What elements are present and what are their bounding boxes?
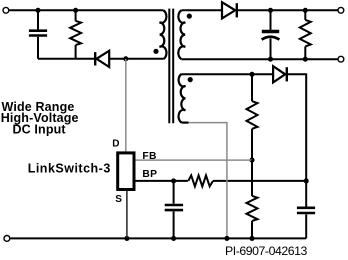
- capacitor C1 (input clamp cap): [29, 10, 47, 58]
- transformer T1 secondary phase dot: [187, 14, 192, 19]
- node C3 to return rail: [171, 236, 176, 241]
- resistor R5 (BP series, horizontal): [188, 175, 213, 186]
- node R4 to return rail: [249, 236, 254, 241]
- wire drain link (thin) to U1 D pin: [125, 59, 127, 151]
- node BP: [304, 178, 309, 183]
- wire BP line left segment from U1 BP pin: [136, 180, 188, 182]
- input terminal - (open circle): [4, 236, 10, 242]
- svg-text:PI-6907-042613: PI-6907-042613: [225, 244, 308, 258]
- resistor R3 (feedback upper): [247, 74, 258, 160]
- svg-text:DC Input: DC Input: [12, 123, 66, 137]
- input terminal + (open circle): [3, 7, 9, 13]
- wire from D1 anode to primary bottom: [109, 58, 163, 60]
- svg-text:D: D: [112, 139, 119, 150]
- wire D2 cathode to output+ terminal: [238, 9, 338, 11]
- node drain junction: [123, 56, 128, 61]
- transformer T1 bias winding: [179, 74, 186, 123]
- wire secondary top to D2 anode: [181, 9, 222, 11]
- resistor R2 (preload): [300, 10, 311, 59]
- resistor R4 (feedback lower): [247, 160, 258, 238]
- node bias divider tap: [249, 72, 254, 77]
- node J6 preload resistor branch bottom: [303, 57, 308, 62]
- resistor R1 (clamp resistor): [70, 10, 81, 58]
- transformer T1 primary winding: [160, 10, 167, 59]
- node J1 top rail cap branch: [35, 8, 40, 13]
- wire bottom return rail: [10, 237, 306, 239]
- wire top rail from input+ to primary top: [9, 9, 163, 11]
- wire secondary bottom to output- terminal: [181, 58, 337, 60]
- output terminal + (open circle): [338, 7, 344, 13]
- node S pin on rail: [124, 236, 129, 241]
- node J3 output cap branch top: [268, 8, 273, 13]
- node J4 preload resistor branch top: [303, 8, 308, 13]
- capacitor C4 (bias filter): [297, 181, 315, 239]
- node J5 output cap branch bottom: [268, 57, 273, 62]
- wire D3 cathode to BP node: [288, 74, 306, 181]
- svg-text:BP: BP: [142, 169, 157, 180]
- op-amp U1 LinkSwitch-3 IC body: [118, 153, 134, 190]
- wire FB link (thin) from U1 FB pin: [136, 159, 253, 161]
- svg-text:FB: FB: [142, 151, 156, 162]
- transformer T1 bias phase dot: [188, 77, 193, 82]
- transformer T1 secondary winding: [178, 10, 185, 59]
- wire BP line right segment to BP node: [213, 180, 306, 182]
- transformer T1 primary phase dot: [153, 49, 158, 54]
- node FB: [249, 158, 254, 163]
- node bias return on rail: [224, 236, 229, 241]
- wire bias return (thin) to rail: [182, 121, 189, 123]
- node BP cap branch: [171, 178, 176, 183]
- wire bias winding top to D3 anode: [182, 73, 274, 75]
- diode D3 (bias rectifier, pointing right): [273, 66, 287, 82]
- diode D2 (output rectifier, pointing right): [222, 2, 237, 18]
- capacitor C3 (BP bypass): [165, 181, 183, 239]
- svg-text:LinkSwitch-3: LinkSwitch-3: [28, 161, 111, 175]
- wire clamp bottom rail: [38, 58, 94, 60]
- output terminal - (open circle): [338, 56, 344, 62]
- transformer T1 core: [169, 9, 173, 124]
- wire S pin link: [126, 191, 128, 238]
- node J2 top rail resistor branch: [73, 8, 78, 13]
- diode D1 (clamp diode, pointing left): [95, 51, 109, 67]
- capacitor C2 (output electrolytic): [262, 10, 280, 59]
- svg-text:S: S: [115, 194, 122, 205]
